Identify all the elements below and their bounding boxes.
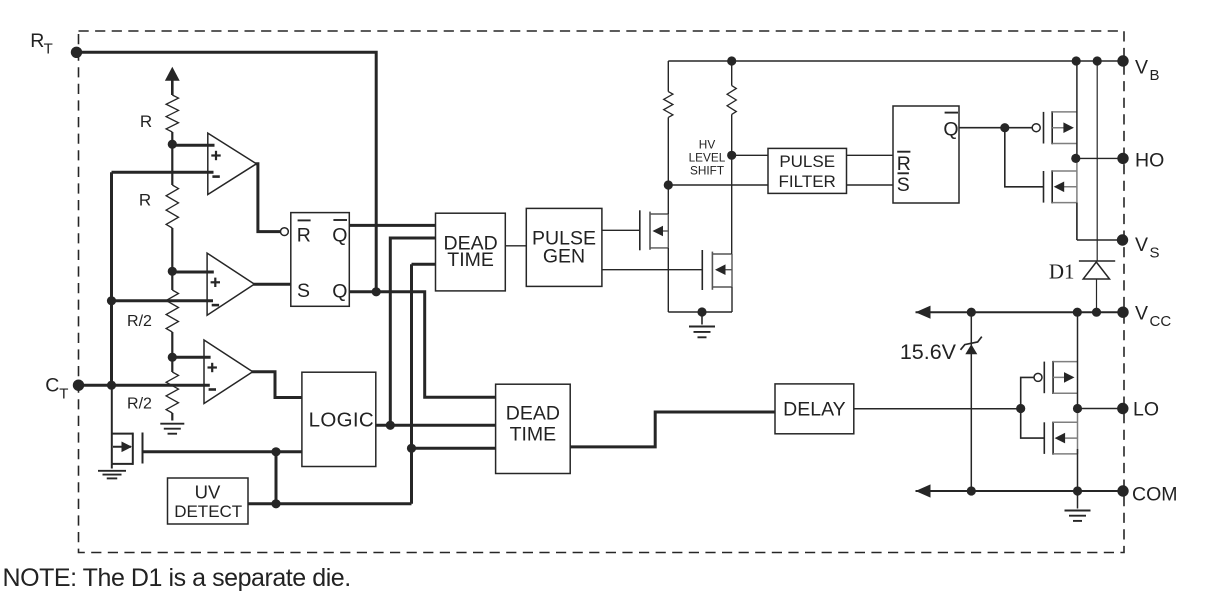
- svg-text:R: R: [297, 225, 311, 247]
- svg-text:HO: HO: [1135, 150, 1164, 172]
- svg-text:FILTER: FILTER: [779, 172, 836, 191]
- svg-text:R: R: [897, 153, 911, 175]
- svg-text:DEAD: DEAD: [506, 402, 560, 424]
- svg-text:V: V: [1135, 234, 1148, 256]
- svg-text:DELAY: DELAY: [783, 399, 846, 421]
- svg-text:15.6V: 15.6V: [900, 340, 957, 364]
- svg-text:S: S: [297, 280, 310, 302]
- svg-text:R: R: [140, 112, 152, 131]
- svg-text:V: V: [1135, 57, 1148, 79]
- svg-text:SHIFT: SHIFT: [690, 164, 724, 178]
- svg-text:NOTE: The D1 is a separate die: NOTE: The D1 is a separate die.: [3, 564, 351, 592]
- svg-text:T: T: [44, 40, 53, 57]
- svg-text:T: T: [59, 386, 68, 403]
- svg-text:V: V: [1135, 303, 1148, 325]
- svg-text:TIME: TIME: [447, 249, 494, 271]
- svg-text:COM: COM: [1132, 484, 1178, 506]
- svg-text:D1: D1: [1049, 260, 1075, 284]
- svg-text:R: R: [30, 30, 44, 52]
- svg-text:S: S: [1150, 245, 1160, 262]
- svg-text:LOGIC: LOGIC: [309, 408, 374, 431]
- svg-text:S: S: [897, 174, 910, 196]
- svg-text:Q: Q: [332, 225, 347, 247]
- svg-text:B: B: [1150, 67, 1160, 84]
- svg-text:Q: Q: [332, 281, 347, 303]
- svg-text:DETECT: DETECT: [174, 502, 242, 521]
- svg-text:UV: UV: [195, 482, 221, 503]
- svg-text:R/2: R/2: [127, 313, 152, 330]
- svg-text:CC: CC: [1150, 313, 1172, 330]
- svg-text:C: C: [45, 374, 59, 396]
- svg-text:LEVEL: LEVEL: [689, 150, 726, 164]
- svg-text:Q: Q: [943, 119, 958, 141]
- svg-text:GEN: GEN: [543, 246, 585, 268]
- svg-text:R: R: [139, 191, 151, 210]
- svg-text:TIME: TIME: [510, 424, 557, 446]
- svg-text:PULSE: PULSE: [779, 152, 835, 171]
- svg-text:LO: LO: [1133, 399, 1159, 421]
- svg-text:R/2: R/2: [127, 395, 152, 412]
